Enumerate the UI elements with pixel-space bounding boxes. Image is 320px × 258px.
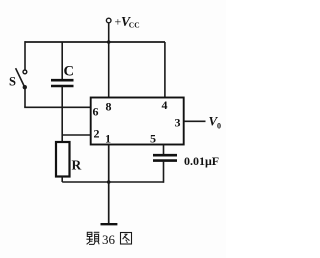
caption: tu (figure char) [121,233,132,245]
wire: pin 2 horizontal [62,134,91,136]
capacitor 0.01uF [153,155,177,160]
svg-text:8: 8 [106,100,112,114]
svg-text:R: R [72,158,82,173]
svg-text:0: 0 [217,122,221,131]
wire: pin 5 lead down to cap [163,145,165,156]
svg-text:C: C [64,64,74,80]
junction dot at Vcc/top rail [107,40,111,44]
junction dot at ground/bottom rail [107,180,111,184]
svg-text:6: 6 [93,105,99,119]
caption: ti (title char) [86,232,99,244]
svg-text:2: 2 [94,127,100,141]
wire: top rail [25,41,166,43]
IC 555 body [91,98,184,145]
svg-text:36: 36 [102,232,116,247]
wire: cap bottom lead down to bottom rail [163,161,165,183]
capacitor C top lead [61,42,63,80]
wire: resistor bottom lead [61,177,63,183]
wire: left vertical from top rail to switch top terminal [24,41,26,70]
wire: ground vertical from pin 1 [108,145,110,224]
resistor R [56,142,70,177]
ground [101,223,118,225]
label Vo [209,114,222,131]
svg-text:S: S [9,75,16,89]
label +Vcc [115,14,140,30]
wire: pin 3 output [184,120,206,122]
wire: right branch down to pin 4 [164,42,166,98]
svg-text:1: 1 [105,132,111,146]
wire: pin 6 horizontal into IC [24,106,91,108]
svg-text:5: 5 [150,132,156,146]
switch S [16,68,27,89]
svg-text:3: 3 [175,116,181,130]
svg-text:CC: CC [129,21,140,30]
wire: bottom rail [62,181,163,183]
svg-text:0.01μF: 0.01μF [184,154,219,168]
capacitor C [51,80,74,86]
svg-text:4: 4 [162,98,168,112]
wire: Vcc vertical down to pin 8 [108,23,110,98]
wire: below switch down to pin6 corner [24,87,26,107]
wire: capacitor bottom lead down to resistor top [61,86,63,142]
Vcc terminal [106,18,111,23]
